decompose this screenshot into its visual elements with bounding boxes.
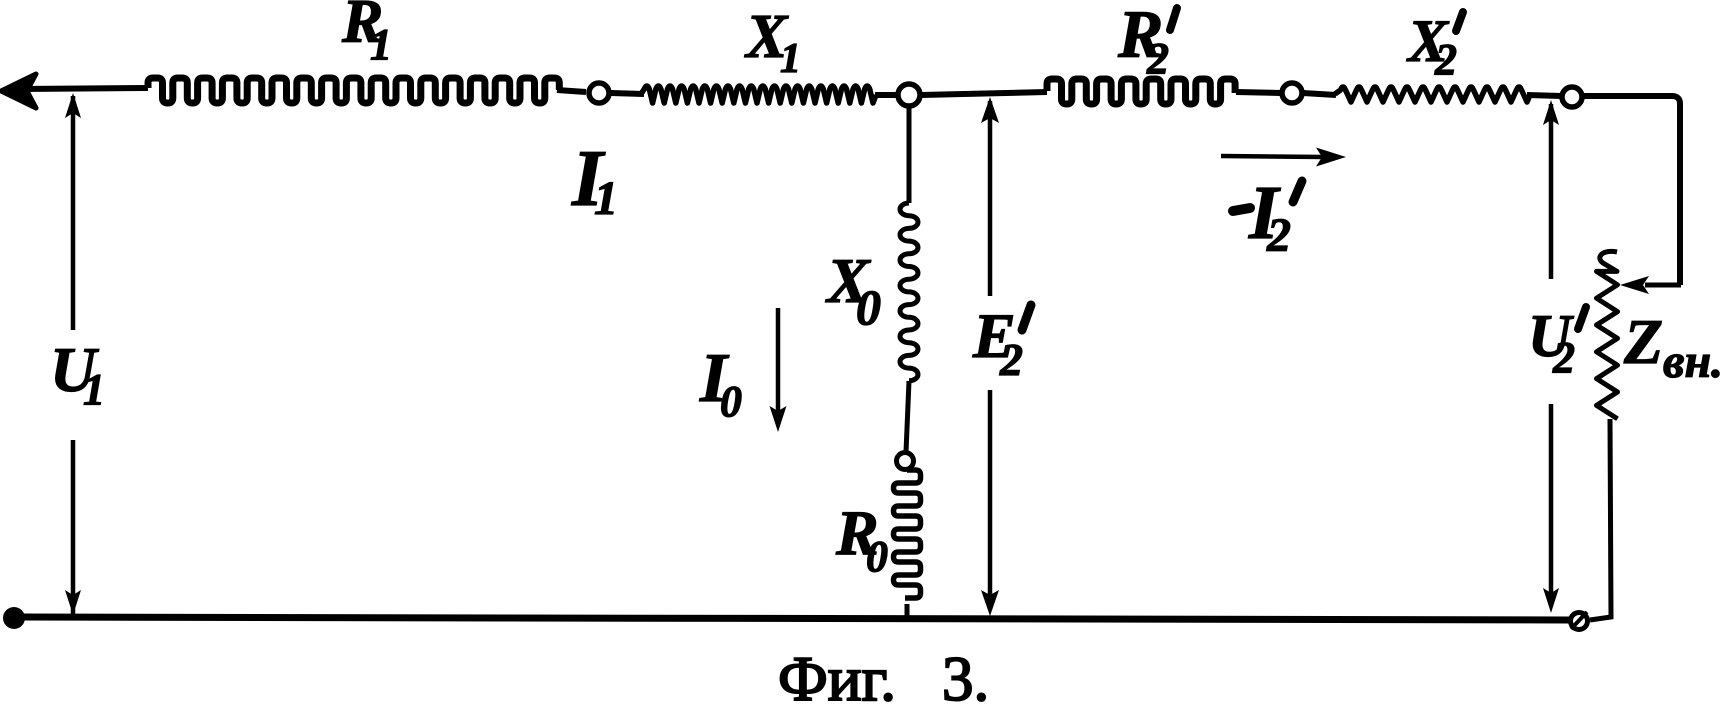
voltage arrow U2' upper: [1549, 104, 1554, 279]
wire node to X1: [611, 93, 644, 94]
prime of X2': [1456, 12, 1463, 31]
voltage arrow U1 lower: [71, 440, 76, 614]
current arrow I0 down: [776, 308, 781, 415]
svg-text:2: 2: [1552, 333, 1575, 382]
emf arrow E2' lower: [988, 390, 993, 602]
slash of terminal node: [1571, 612, 1587, 629]
terminal dot bottom-left: [3, 607, 25, 629]
wire top-left horizontal: [20, 88, 148, 89]
wire X1 to node A: [875, 92, 898, 98]
wire X2' to node B: [1527, 95, 1562, 96]
resistor Z vn load: [1597, 251, 1618, 418]
prime of E2': [1022, 305, 1031, 330]
resistor R1: [148, 78, 559, 103]
svg-text:Фиг.: Фиг.: [778, 644, 896, 704]
wire node to X2': [1303, 93, 1336, 95]
emf arrow E2' upper: [988, 101, 993, 296]
prime of R2': [1170, 8, 1177, 30]
label -I2' minus: [1233, 208, 1250, 211]
wire Z vn to bottom: [1590, 419, 1611, 620]
terminal arrow top-left: [1, 74, 36, 108]
bottom wire: [22, 617, 1570, 620]
svg-text:1: 1: [83, 365, 105, 414]
node after R1: [589, 83, 609, 103]
inductor X2': [1335, 87, 1530, 102]
prime of -I2': [1293, 181, 1302, 202]
svg-text:2: 2: [1146, 34, 1169, 83]
svg-text:Z: Z: [1623, 306, 1663, 377]
svg-text:1: 1: [370, 20, 392, 69]
svg-text:1: 1: [594, 172, 618, 225]
svg-text:3.: 3.: [942, 644, 989, 704]
inductor X1: [641, 86, 876, 103]
svg-text:0: 0: [856, 279, 881, 335]
svg-text:0: 0: [866, 532, 888, 581]
wire R0 to bottom: [905, 604, 910, 620]
wire node B to corner, down right side: [1582, 96, 1680, 285]
inductor X0: [900, 203, 918, 381]
node between X0 and R0: [897, 453, 914, 470]
vertical wire node A to X0: [907, 106, 912, 203]
wire R2' to node: [1236, 92, 1281, 93]
wire node A to R2': [921, 92, 1047, 95]
voltage arrow U2' lower: [1549, 404, 1554, 600]
svg-text:2: 2: [1266, 209, 1291, 262]
resistor R2': [1047, 79, 1235, 104]
node B output top: [1562, 87, 1582, 107]
svg-text:1: 1: [780, 36, 801, 82]
resistor R0 vertical meander: [894, 470, 921, 598]
node after R2': [1282, 83, 1302, 103]
current arrow -I2': [1221, 156, 1324, 157]
svg-text:0: 0: [720, 377, 742, 426]
svg-text:2: 2: [1434, 35, 1457, 84]
wire R1 to node: [557, 90, 586, 92]
voltage arrow U1 upper: [71, 96, 76, 330]
svg-text:2: 2: [999, 334, 1023, 385]
terminal node bottom-right slashed: [1571, 613, 1588, 630]
svg-text:вн.: вн.: [1663, 335, 1720, 388]
node A shunt tap: [898, 84, 920, 106]
prime of U2': [1578, 307, 1586, 329]
arrow into Z load: [1645, 283, 1681, 288]
wire X0 to mid node: [906, 381, 909, 452]
